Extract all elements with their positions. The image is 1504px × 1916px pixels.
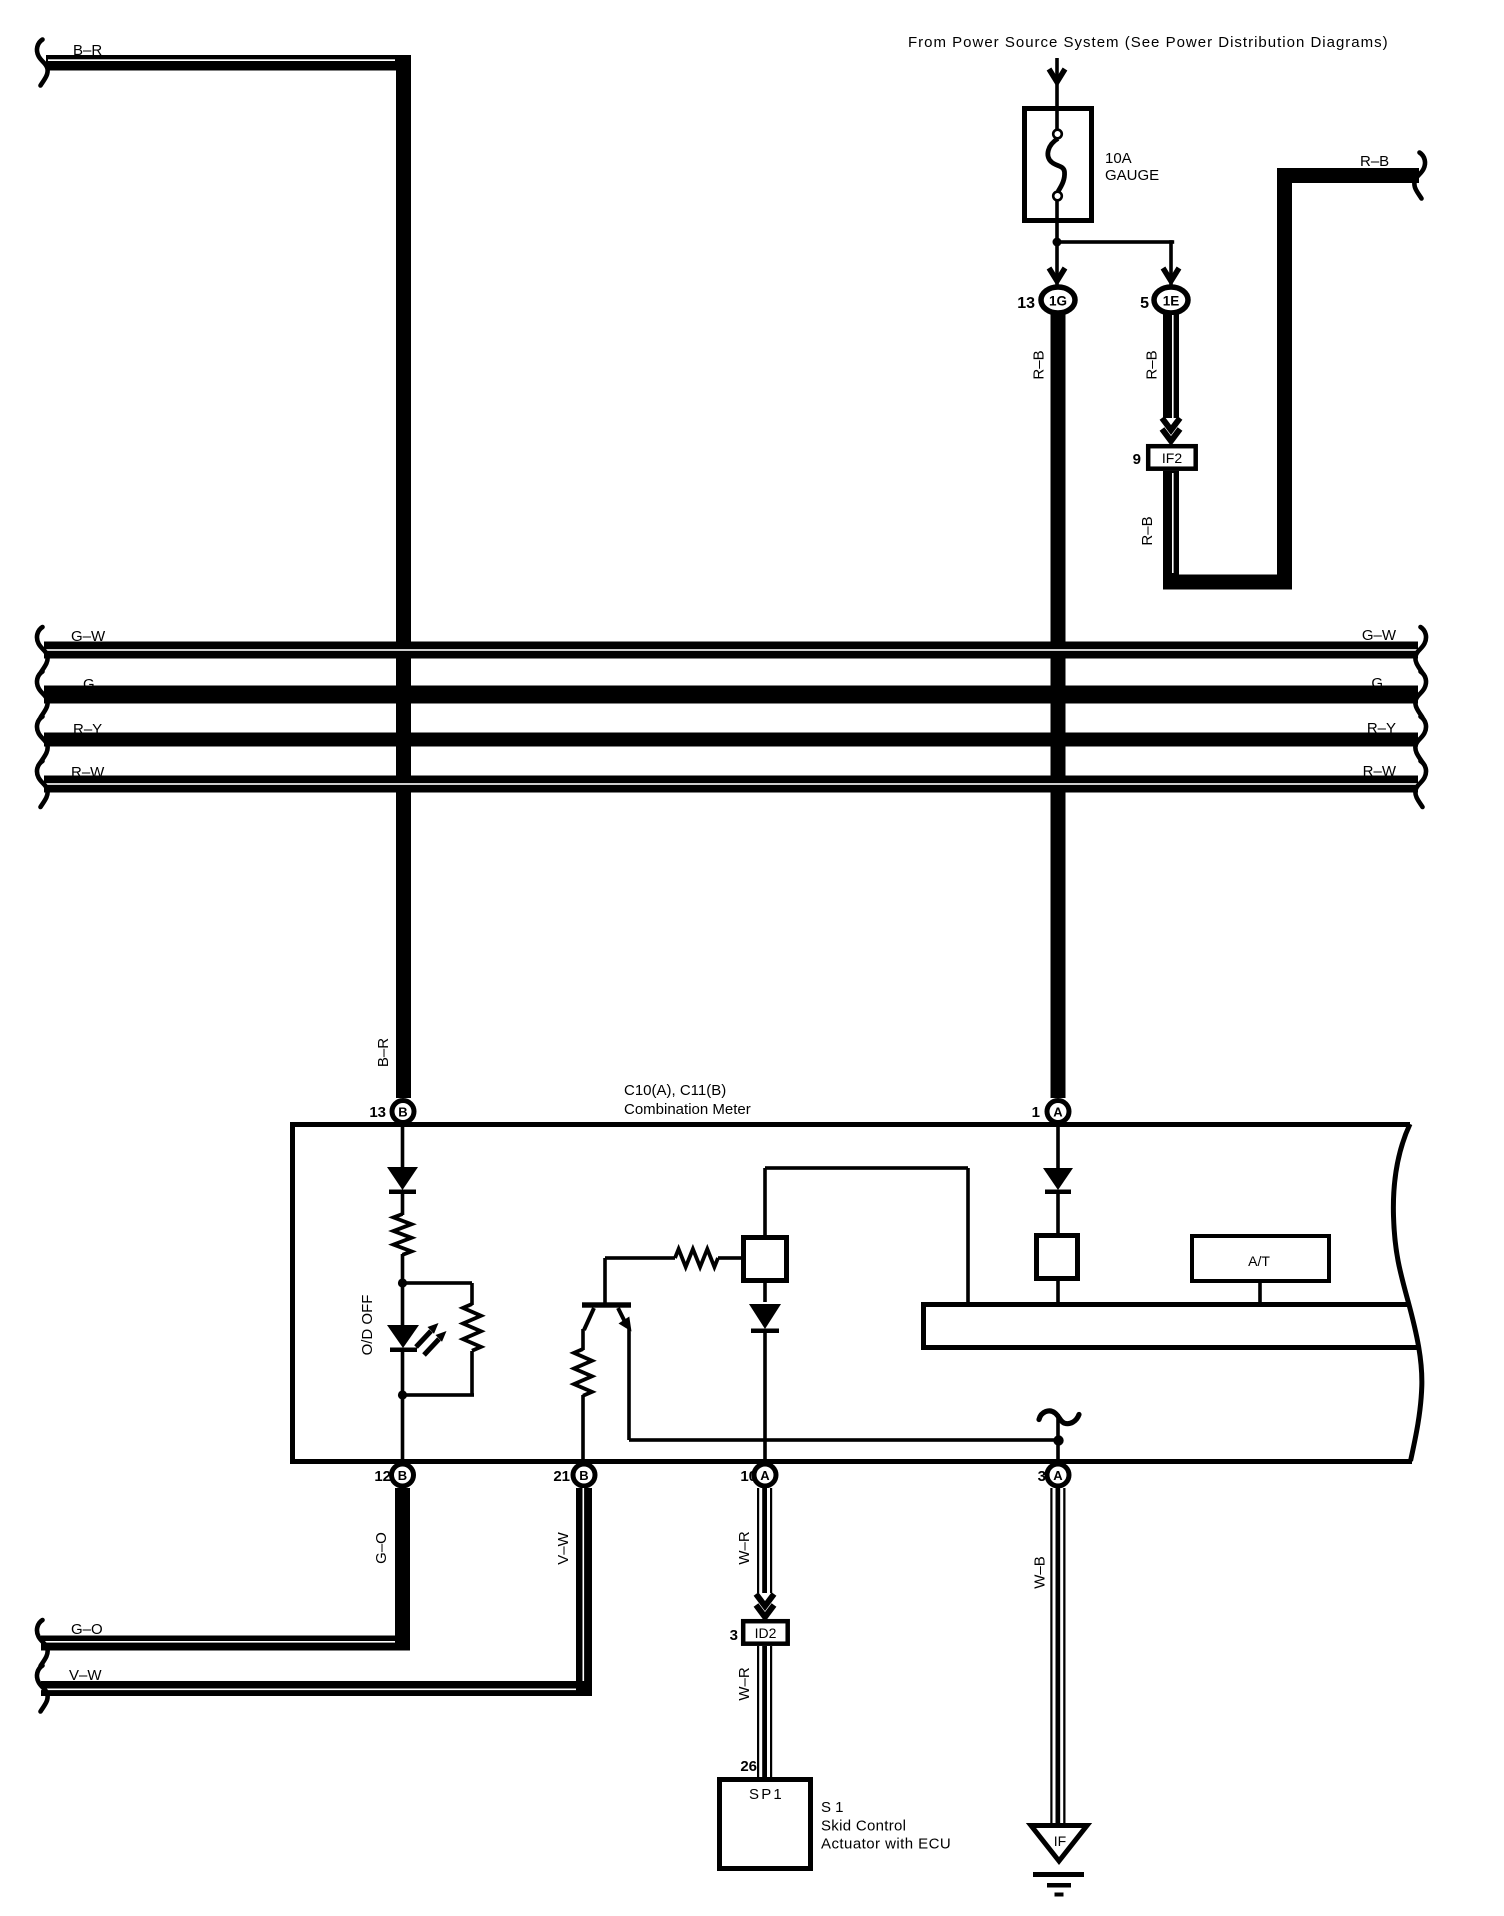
connector 21(B) at meter bottom [573,1464,595,1486]
wire B-R vertical [396,55,411,1098]
component S1 SP1 box [720,1780,811,1869]
svg-text:V–W: V–W [69,1667,102,1684]
svg-text:R–B: R–B [1031,350,1048,379]
LED D3 O/D OFF [387,1325,419,1348]
wire diode D2 to U3 [1056,1191,1060,1233]
wire transistor left leg to resistor R5 [581,1329,585,1350]
svg-text:13: 13 [369,1104,386,1121]
wire bus R-Y [44,733,1418,747]
wire net from U2 up and over to bus bar [763,1168,767,1235]
svg-text:G–W: G–W [1362,627,1397,644]
svg-text:From Power Source System (See: From Power Source System (See Power Dist… [908,34,1389,51]
node junction above 3(A) [1053,1435,1063,1445]
svg-text:W–R: W–R [736,1667,753,1701]
combination meter box torn right edge [1393,1124,1421,1461]
svg-text:B: B [398,1468,407,1483]
resistor R2 parallel [463,1304,481,1351]
svg-text:12: 12 [374,1468,391,1485]
wire R-B below IF2 [1163,471,1179,575]
svg-text:B–R: B–R [375,1038,392,1067]
wire LED to 12(B) [401,1351,405,1462]
arrow power source down [1049,69,1065,82]
svg-text:ID2: ID2 [755,1625,777,1641]
svg-text:G: G [1371,675,1383,692]
fuse F1 10A GAUGE box [1025,109,1092,221]
svg-text:R–W: R–W [71,764,105,781]
svg-text:Skid Control: Skid Control [821,1818,906,1835]
combination meter box left border [290,1122,295,1464]
combination meter box bottom border [290,1459,1412,1464]
resistor R1 [394,1214,412,1255]
svg-text:R–Y: R–Y [1367,720,1396,737]
wire B-R horizontal top-left [46,55,411,71]
connector 3(A) at meter bottom [1047,1464,1069,1486]
svg-text:R–B: R–B [1139,516,1156,545]
diode D2 [1043,1168,1073,1190]
svg-text:1: 1 [1032,1104,1040,1121]
wire bus G-W [44,642,1418,659]
curl G-W right [1415,627,1426,673]
wire branch to 1E [1055,240,1174,244]
junction ID2 pin 3 [743,1621,788,1644]
svg-text:O/D OFF: O/D OFF [359,1295,376,1356]
svg-text:R–Y: R–Y [73,721,102,738]
curl G left [37,672,48,718]
LED emission arrow 1 [416,1331,431,1347]
svg-text:9: 9 [1133,451,1141,468]
curl G-W left [37,627,48,673]
arrow double chevron into IF2 [1162,418,1180,430]
wire 13(B) to diode [401,1124,405,1168]
wire V-W horizontal to left edge [41,1681,592,1696]
connector 10(A) at meter bottom [754,1464,776,1486]
svg-text:Actuator with ECU: Actuator with ECU [821,1836,951,1853]
fuse element S-curve [1048,139,1065,192]
connector 12(B) at meter bottom [392,1464,414,1486]
transistor Q1 base lead [603,1258,607,1304]
svg-text:21: 21 [553,1468,570,1485]
curl R-Y left [37,717,48,763]
svg-text:Combination Meter: Combination Meter [624,1101,751,1118]
wire U3 to bus bar [1056,1281,1060,1302]
fuse terminal circle top [1053,130,1062,139]
node junction above LED [398,1278,407,1287]
svg-text:A: A [1053,1468,1063,1483]
arrow double chevron into ID2 [756,1594,774,1606]
svg-text:3: 3 [1038,1468,1046,1485]
svg-text:IF: IF [1054,1833,1066,1849]
svg-text:GAUGE: GAUGE [1105,167,1159,184]
wire R-B from 1G down to 1(A) [1051,313,1066,1098]
wire W-R below 10(A) [757,1488,772,1593]
component A/T box [1192,1236,1329,1281]
curl B-R left edge [37,40,48,86]
transistor Q1 emitter leg with arrow [618,1308,627,1326]
arrow into 1E [1163,268,1179,281]
squiggle continues symbol above 3(A) [1039,1411,1079,1424]
LED emission arrow 2 [424,1339,439,1355]
diode D4 [749,1304,781,1329]
component U3 square [1037,1236,1078,1279]
component U2 square [744,1238,787,1281]
wire diode D4 to 10(A) [763,1333,767,1462]
wire resistor to LED [401,1254,405,1326]
svg-text:R–W: R–W [1363,763,1397,780]
svg-text:S 1: S 1 [821,1799,844,1816]
svg-text:IF2: IF2 [1162,450,1182,466]
svg-text:G–W: G–W [71,628,106,645]
node junction below LED [398,1390,407,1399]
svg-text:A/T: A/T [1248,1253,1270,1269]
svg-text:A: A [760,1468,770,1483]
svg-text:26: 26 [740,1758,757,1775]
svg-text:A: A [1053,1105,1063,1120]
wire parallel resistor bottom [470,1351,474,1396]
svg-text:B: B [398,1105,407,1120]
wire U2 to diode D4 [763,1283,767,1302]
ground bar 1 [1033,1872,1084,1877]
wire inside fuse top [1055,111,1059,134]
curl G-O left edge [37,1620,48,1666]
wire G-O horizontal to left edge [41,1636,410,1651]
wire R-B loop bottom horizontal [1163,575,1292,590]
svg-text:G: G [83,676,95,693]
ground IF triangle [1031,1826,1087,1862]
wire R-B from 1E down [1163,313,1179,418]
wire bus G [44,686,1418,704]
ground bar 2 [1047,1883,1071,1888]
svg-text:1G: 1G [1049,294,1067,309]
svg-text:13: 13 [1017,295,1035,312]
diode D1 [387,1167,418,1190]
wire resistor R4 to U2 [718,1256,741,1260]
wire W-B below 3(A) [1050,1488,1065,1823]
svg-text:R–B: R–B [1144,350,1161,379]
curl R-Y right [1415,717,1426,763]
wire W-R below ID2 [757,1646,772,1777]
svg-text:B–R: B–R [73,42,102,59]
internal bus bar [921,1302,1418,1350]
wire power source stem [1055,58,1059,106]
combination meter box top border [290,1122,1410,1127]
curl R-W left [37,761,48,807]
wire A/T to bus bar [1258,1283,1262,1303]
svg-text:G–O: G–O [71,1621,103,1638]
wire G-O below 12(B) [395,1488,410,1650]
resistor R5 below transistor [574,1349,592,1396]
curl R-W right [1415,761,1426,807]
wire diode to resistor [401,1193,405,1215]
svg-text:W–B: W–B [1032,1556,1049,1589]
wire emitter down and right to node [627,1328,631,1440]
arrow into 1G [1049,268,1065,281]
svg-text:R–B: R–B [1360,153,1389,170]
node junction below fuse [1053,238,1062,247]
curl G right [1415,672,1426,718]
connector 1E pin 5 [1154,287,1188,313]
svg-text:G–O: G–O [373,1532,390,1564]
connector 13(B) at meter top [392,1101,414,1123]
svg-text:1E: 1E [1163,294,1180,309]
transistor Q1 base bar [582,1302,631,1307]
svg-text:5: 5 [1140,295,1149,312]
transistor Q1 left leg [584,1308,594,1330]
junction IF2 pin 9 [1148,446,1196,469]
svg-text:C10(A), C11(B): C10(A), C11(B) [624,1082,726,1099]
connector 1(A) at meter top [1047,1101,1069,1123]
wire resistor R5 to 21(B) [581,1395,585,1462]
connector 1G pin 13 [1041,287,1075,313]
svg-text:SP1: SP1 [749,1786,784,1803]
curl V-W left edge [37,1666,48,1712]
wire fuse bottom to junction [1055,200,1059,286]
wire R-B top-right horizontal [1285,168,1419,183]
svg-text:V–W: V–W [555,1531,572,1564]
wire R-B loop right vertical [1277,168,1292,590]
svg-text:10A: 10A [1105,150,1132,167]
wire squiggle to 3(A) [1056,1414,1060,1462]
curl R-B right edge [1414,153,1425,199]
wire branch to parallel resistor top [402,1281,472,1285]
svg-text:10: 10 [740,1468,757,1485]
svg-text:3: 3 [730,1627,738,1644]
svg-text:B: B [579,1468,588,1483]
resistor R4 to base [675,1249,718,1267]
wire V-W below 21(B) [576,1488,592,1696]
wire bus R-W [44,776,1418,793]
wire 1(A) to diode D2 [1056,1125,1060,1168]
ground bar 3 [1055,1893,1064,1897]
fuse terminal circle bottom [1053,192,1062,201]
svg-text:W–R: W–R [736,1531,753,1565]
